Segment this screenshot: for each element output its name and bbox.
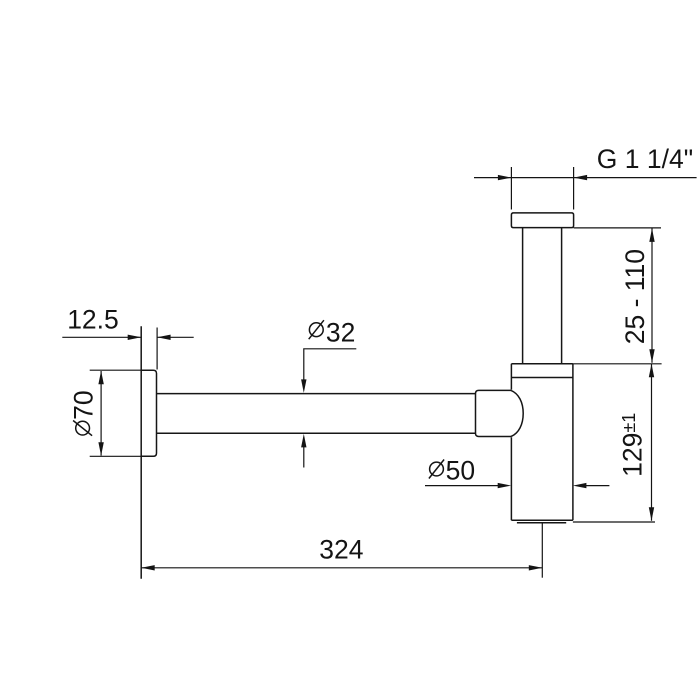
svg-text:50: 50 <box>446 456 475 486</box>
dia50 dim line left <box>425 485 499 487</box>
arrow 129 bottom (points down) <box>649 507 654 521</box>
top vertical pipe <box>523 228 562 364</box>
dimension thin lines <box>62 167 696 578</box>
body top extension line <box>573 363 662 365</box>
arrowheads <box>98 175 654 571</box>
dia symbol of dia70 <box>76 421 90 435</box>
arrow G left (points right at x=511.4) <box>498 175 512 180</box>
arrow 324 left (points left) <box>141 565 155 570</box>
dim G 1 1/4 line <box>474 177 697 179</box>
dim 25-110 top extension (flange bottom extended) <box>574 227 661 229</box>
svg-text:G 1 1/4": G 1 1/4" <box>597 144 693 174</box>
dia symbol of dia32 <box>309 323 323 337</box>
label dia50 <box>429 456 475 486</box>
dim 25-110 line <box>651 228 653 362</box>
arrow dia32 bottom (points up) <box>301 434 306 448</box>
arrow dia70 top (points up) <box>98 371 103 385</box>
svg-text:12.5: 12.5 <box>67 305 119 335</box>
dim 324 line <box>141 567 542 569</box>
dim 129 line <box>651 364 653 521</box>
dim 129 bottom extension <box>573 521 655 523</box>
svg-text:32: 32 <box>326 318 355 348</box>
dia50 dim line right <box>586 485 610 487</box>
arrow 12.5 left (points right) <box>128 335 142 340</box>
arrow 25-110 bottom (points down) <box>649 349 654 363</box>
dim 12.5 line left part <box>62 336 141 338</box>
arrow G right (points left at x=573.6) <box>574 175 588 180</box>
arrow 12.5 right (points left) <box>157 335 171 340</box>
top flange <box>511 213 573 228</box>
arrow dia50 left (points right) <box>498 483 512 488</box>
inlet nut <box>476 390 512 436</box>
wall flange <box>141 370 156 456</box>
label dia32 <box>309 318 356 348</box>
trap body top cap <box>511 364 573 378</box>
object outlines <box>141 213 573 579</box>
dim G 1 1/4 extension lines <box>511 167 573 210</box>
horizontal pipe <box>157 394 476 434</box>
nut dome <box>511 390 523 436</box>
arrow dia32 top (points down) <box>301 379 306 393</box>
arrow 324 right (points right) <box>529 565 543 570</box>
svg-text:324: 324 <box>319 535 363 565</box>
arrow dia50 right (points left) <box>573 483 587 488</box>
dim 12.5 right extension line <box>156 328 158 370</box>
arrow dia70 bottom (points down) <box>98 442 103 456</box>
label 129 +/-1 (rotated) <box>618 413 648 477</box>
trap body bottom <box>511 520 573 522</box>
trap body sides <box>511 364 573 521</box>
wall line <box>140 326 142 579</box>
dia symbol of dia50 <box>430 462 444 476</box>
label 25 - 110 (rotated) <box>620 249 650 344</box>
dia32 leader <box>304 349 357 381</box>
arrow 129 top (points up) <box>649 364 654 378</box>
svg-text:70: 70 <box>68 390 98 419</box>
dim 12.5 line right part <box>157 336 194 338</box>
svg-text:25 - 110: 25 - 110 <box>620 249 650 344</box>
dim dia70 extension lines <box>90 370 142 456</box>
label dia70 (rotated) <box>68 390 98 435</box>
dia32 lower leader <box>303 447 305 468</box>
arrow 25-110 top (points up) <box>649 228 654 242</box>
dim dia70 line <box>100 371 102 456</box>
body centerline <box>541 523 543 578</box>
